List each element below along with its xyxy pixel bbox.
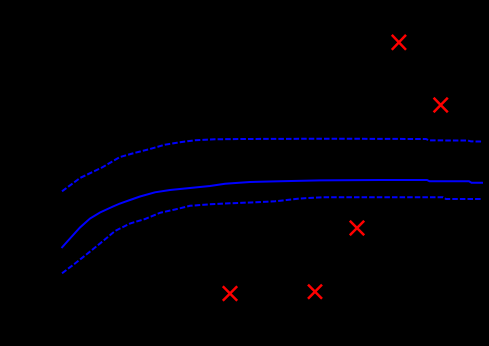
curve: middle solid (blue)	[62, 180, 484, 248]
marker X3 (red)	[350, 221, 364, 235]
marker X4 (red)	[223, 286, 237, 300]
marker X1 (red)	[392, 35, 406, 50]
marker X2 (red)	[434, 98, 448, 113]
marker X5 (red)	[308, 285, 322, 299]
curve: upper dashed (blue)	[62, 139, 483, 192]
curve: lower dashed (blue)	[62, 197, 482, 273]
